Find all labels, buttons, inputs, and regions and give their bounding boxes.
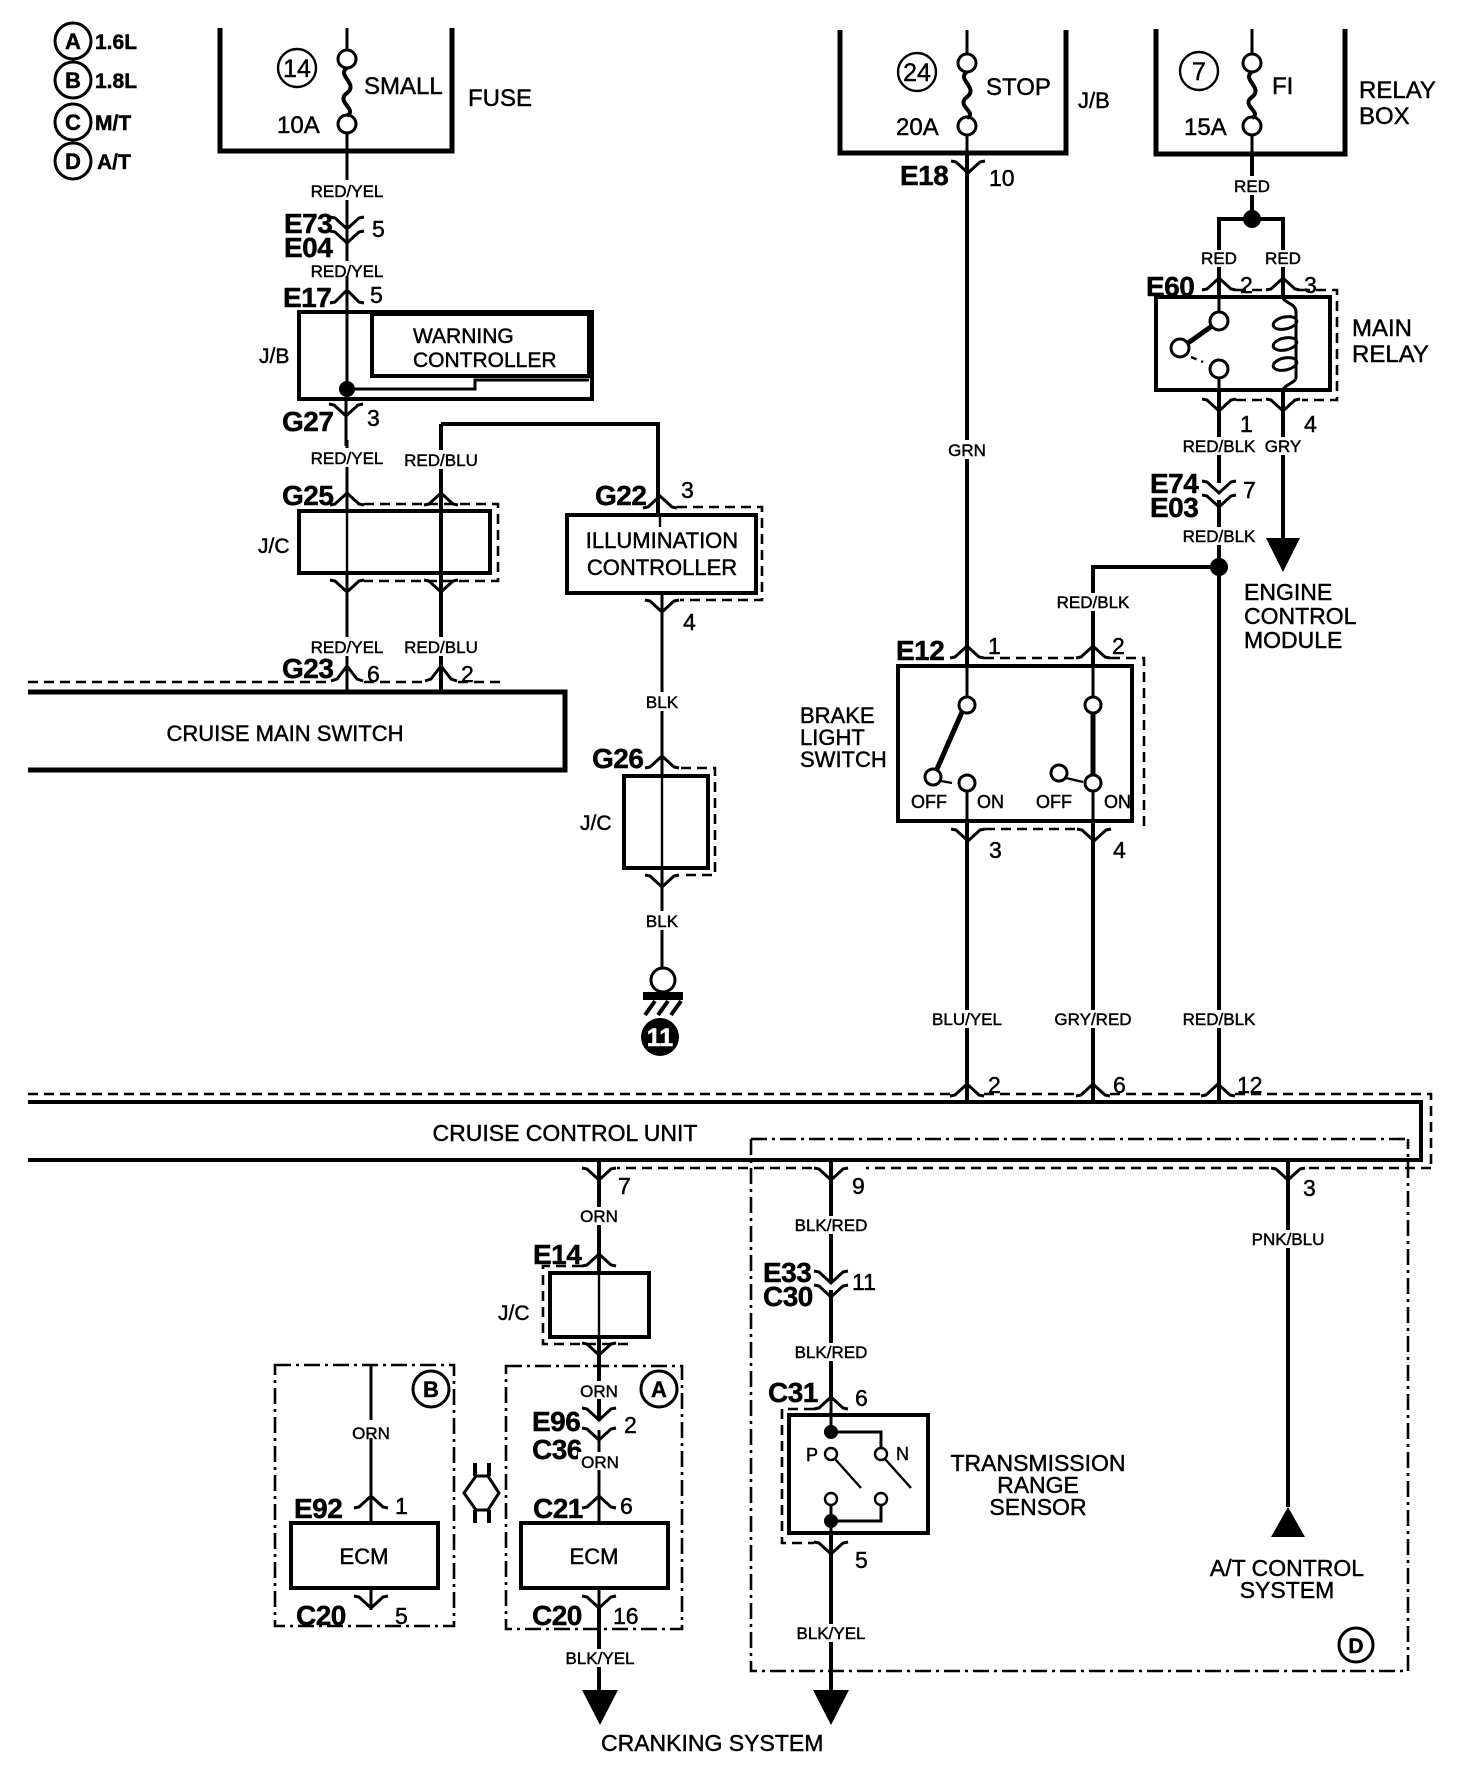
wire fuse14 to E73 (RED/YEL) [308, 151, 386, 251]
svg-text:BLK/YEL: BLK/YEL [797, 1624, 866, 1643]
wire B box (ORN) [348, 1365, 394, 1497]
svg-text:20A: 20A [896, 114, 939, 141]
svg-text:ILLUMINATION: ILLUMINATION [586, 528, 738, 553]
brake switch contact 2 (ON position) [1036, 666, 1131, 821]
G26 J/C lower pin [645, 875, 679, 887]
connector E74/E03 pin 7 [1150, 468, 1256, 523]
svg-text:2: 2 [624, 1412, 637, 1438]
wire J/C to G23 pin2 (RED/BLU) [404, 573, 480, 664]
legend circle A 1.6L [55, 23, 137, 59]
svg-text:3: 3 [989, 837, 1002, 863]
relay box outline for fuse 7 [1156, 29, 1345, 154]
transmission range sensor box [782, 1409, 1126, 1543]
svg-text:GRY/RED: GRY/RED [1054, 1010, 1131, 1029]
legend circle D A/T [55, 143, 131, 179]
svg-text:4: 4 [1113, 837, 1126, 863]
E12 pins 3 and 4 [951, 829, 1126, 863]
junction connector J/C box at G26 [580, 768, 715, 875]
svg-text:1.8L: 1.8L [95, 70, 137, 93]
wire J/C to ground (BLK) [641, 868, 683, 968]
connector G23 pins 6 and 2 [28, 653, 500, 687]
connector E14 [533, 1239, 616, 1270]
svg-text:14: 14 [283, 55, 311, 83]
svg-text:C21: C21 [533, 1493, 583, 1524]
svg-text:ENGINE: ENGINE [1244, 579, 1332, 605]
svg-text:GRY: GRY [1265, 437, 1302, 456]
svg-text:10: 10 [989, 165, 1015, 191]
variant box A dash-dot outline [506, 1366, 682, 1629]
wire C20 to cranking arrow (BLK/YEL) [563, 1608, 638, 1725]
svg-text:J/B: J/B [259, 345, 289, 368]
svg-text:2: 2 [1240, 272, 1253, 298]
svg-text:11: 11 [852, 1269, 876, 1295]
label RELAY BOX [1359, 77, 1436, 130]
cruise control unit dashed connector outline [28, 1094, 1431, 1168]
svg-text:RED/BLK: RED/BLK [1183, 1010, 1256, 1029]
svg-text:OFF: OFF [911, 792, 947, 812]
svg-text:RED/BLK: RED/BLK [1183, 527, 1256, 546]
double arrow between B and A [464, 1476, 499, 1510]
relay coil [1272, 297, 1298, 390]
connector E33/C30 pin 11 [763, 1257, 876, 1312]
wire J/C to G23 pin6 (RED/YEL) [310, 573, 384, 664]
svg-text:5: 5 [372, 216, 385, 242]
svg-text:E18: E18 [900, 160, 948, 191]
connector C31 pin 5 [814, 1542, 868, 1573]
svg-text:N: N [896, 1444, 909, 1464]
svg-text:RELAY: RELAY [1359, 77, 1436, 104]
connector C20 pin 16 (A) [532, 1588, 639, 1631]
svg-text:G25: G25 [282, 480, 333, 511]
svg-text:CRUISE CONTROL UNIT: CRUISE CONTROL UNIT [433, 1120, 698, 1146]
cruise control unit pins 7 9 3 [582, 1168, 1316, 1201]
svg-text:E92: E92 [294, 1493, 342, 1524]
svg-text:BLK/RED: BLK/RED [795, 1343, 868, 1362]
svg-text:9: 9 [852, 1173, 865, 1199]
region D dash-dot top edge [751, 1138, 1408, 1141]
branch wire junction to E12 pin2 (RED/BLK) [1055, 567, 1219, 666]
cruise main switch box [28, 692, 565, 770]
svg-text:7: 7 [1243, 477, 1256, 503]
svg-text:C20: C20 [532, 1600, 582, 1631]
E14 J/C lower pin [582, 1343, 616, 1355]
ECM box (B) [291, 1497, 438, 1588]
svg-text:1.6L: 1.6L [95, 31, 137, 54]
svg-text:C31: C31 [768, 1377, 818, 1408]
connector E17 pin 5 [283, 276, 383, 313]
svg-text:C: C [65, 110, 81, 135]
svg-text:M/T: M/T [95, 112, 131, 135]
svg-text:C20: C20 [296, 1600, 346, 1631]
wire E60 pin4 (GRY) to engine control module arrow [1263, 390, 1304, 572]
wires G23 into cruise main switch [346, 664, 349, 692]
svg-text:15A: 15A [1184, 114, 1227, 141]
svg-text:16: 16 [613, 1603, 639, 1629]
svg-text:SYSTEM: SYSTEM [1240, 1577, 1335, 1603]
svg-text:11: 11 [647, 1024, 674, 1052]
svg-text:1: 1 [1240, 411, 1253, 437]
svg-text:MAIN: MAIN [1352, 315, 1412, 342]
svg-text:MODULE: MODULE [1244, 627, 1342, 653]
connector E18 pin 10 [900, 160, 1015, 191]
ECM box (A) [521, 1497, 668, 1588]
svg-text:ON: ON [977, 792, 1004, 812]
svg-text:BOX: BOX [1359, 103, 1410, 130]
svg-text:G22: G22 [595, 480, 646, 511]
connector G26 [592, 743, 679, 774]
label A/T CONTROL SYSTEM [1210, 1555, 1364, 1603]
svg-text:5: 5 [855, 1547, 868, 1573]
svg-text:BLK/YEL: BLK/YEL [566, 1649, 635, 1668]
svg-text:6: 6 [855, 1385, 868, 1411]
svg-text:E17: E17 [283, 282, 331, 313]
svg-text:P: P [806, 1445, 818, 1465]
arrow from A/T control system [1271, 1507, 1305, 1537]
wire E60 pin1 down (RED/BLK) [1181, 390, 1258, 483]
wire cruise pin3 to A/T control (PNK/BLU) [1247, 1160, 1329, 1507]
G25 J/C lower pins [330, 580, 458, 592]
wire E12 pin4 to cruise pin6 (GRY/RED) [1053, 821, 1133, 1102]
svg-text:ECM: ECM [570, 1544, 619, 1569]
ground G11 [643, 968, 683, 1015]
legend circle C M/T [55, 104, 131, 140]
svg-text:ORN: ORN [580, 1382, 618, 1401]
sensor internal contacts [806, 1398, 911, 1533]
svg-text:E12: E12 [896, 635, 944, 666]
wire through J/B with junction dot [339, 312, 589, 399]
svg-text:ON: ON [1104, 792, 1131, 812]
svg-text:CRUISE MAIN SWITCH: CRUISE MAIN SWITCH [166, 721, 403, 746]
connector C20 pin 5 (B) [296, 1588, 408, 1631]
svg-text:3: 3 [367, 405, 380, 431]
svg-text:6: 6 [620, 1493, 633, 1519]
svg-text:3: 3 [681, 477, 694, 503]
connector G22 pin 4 [645, 600, 696, 635]
cruise control unit box [28, 1102, 1421, 1160]
svg-text:SMALL: SMALL [364, 73, 443, 100]
label ENGINE CONTROL MODULE [1244, 579, 1357, 653]
svg-text:10A: 10A [277, 112, 320, 139]
wire C31 pin5 to cranking arrow (BLK/YEL) [794, 1533, 869, 1725]
svg-text:BLU/YEL: BLU/YEL [932, 1010, 1002, 1029]
svg-text:J/B: J/B [1078, 88, 1110, 113]
junction connector J/C box at G25 [258, 504, 498, 581]
svg-text:RED/YEL: RED/YEL [311, 182, 384, 201]
svg-text:E96: E96 [532, 1406, 580, 1437]
svg-text:OFF: OFF [1036, 792, 1072, 812]
wire cruise pin7 to E14 (ORN) [577, 1160, 622, 1273]
wire label ORN above E96 [576, 1381, 622, 1401]
svg-text:1: 1 [395, 1493, 408, 1519]
svg-text:B: B [65, 68, 81, 93]
svg-text:24: 24 [903, 59, 931, 87]
svg-text:J/C: J/C [580, 812, 612, 835]
illumination controller box [567, 507, 762, 600]
svg-text:ORN: ORN [352, 1424, 390, 1443]
fuse 24 STOP 20A [896, 30, 1051, 153]
connector C21 pin 6 [533, 1493, 633, 1524]
wire fuse7 down (RED) with junction [1230, 154, 1274, 228]
svg-text:ORN: ORN [580, 1207, 618, 1226]
fuse box (J/B) outline for fuse 14 [220, 28, 452, 151]
connector E12 pins 1 and 2 [896, 633, 1144, 829]
svg-text:7: 7 [1192, 58, 1206, 86]
svg-text:SWITCH: SWITCH [800, 747, 887, 772]
svg-text:E03: E03 [1150, 492, 1198, 523]
svg-text:5: 5 [395, 1603, 408, 1629]
relay switch contact [1171, 297, 1228, 390]
variant box B dash-dot outline [275, 1365, 454, 1626]
svg-text:GRN: GRN [948, 441, 986, 460]
svg-text:STOP: STOP [986, 74, 1051, 101]
svg-text:5: 5 [370, 282, 383, 308]
E60 pins 1 and 4 [1202, 399, 1317, 437]
svg-text:WARNING: WARNING [413, 325, 514, 348]
connector G27 pin 3 [282, 399, 380, 446]
svg-text:BLK: BLK [646, 693, 679, 712]
svg-text:RED/BLU: RED/BLU [404, 451, 478, 470]
svg-text:RED/BLK: RED/BLK [1183, 437, 1256, 456]
svg-text:A: A [65, 29, 81, 54]
main relay box [1156, 297, 1429, 390]
ground id 11 [641, 1018, 679, 1056]
svg-text:2: 2 [1112, 633, 1125, 659]
svg-text:RED: RED [1265, 249, 1301, 268]
connector C31 pin 6 [768, 1377, 868, 1411]
wire cruise pin9 to E33 (BLK/RED) [793, 1160, 870, 1281]
wire branch corner to illumination controller [441, 424, 658, 515]
svg-text:BLK: BLK [646, 912, 679, 931]
wire E96 to C21 (ORN) [578, 1430, 622, 1497]
svg-text:3: 3 [1303, 1175, 1316, 1201]
svg-text:A/T: A/T [97, 151, 131, 174]
svg-text:CRANKING SYSTEM: CRANKING SYSTEM [601, 1730, 823, 1756]
svg-text:D: D [1348, 1635, 1363, 1658]
wire E73 to E17 (RED/YEL) [308, 258, 386, 288]
svg-text:CONTROL: CONTROL [1244, 603, 1357, 629]
connector E92 pin 1 [294, 1493, 408, 1524]
wire G22 pin4 to G26 (BLK) [641, 593, 683, 776]
fuse 14 SMALL 10A [277, 28, 443, 151]
svg-text:RED: RED [1201, 249, 1237, 268]
branch wires to E60 pins (RED / RED) [1198, 219, 1305, 297]
svg-text:C36: C36 [532, 1434, 582, 1465]
svg-text:J/C: J/C [258, 535, 290, 558]
junction connector J/C box at E14 [498, 1266, 649, 1344]
connector E96/C36 pin 2 [532, 1406, 637, 1465]
cruise control unit connector pins 2 6 12 [950, 1072, 1263, 1098]
svg-text:RED/YEL: RED/YEL [311, 449, 384, 468]
svg-text:J/C: J/C [498, 1302, 530, 1325]
svg-text:G26: G26 [592, 743, 643, 774]
svg-text:BLK/RED: BLK/RED [795, 1216, 868, 1235]
svg-text:RED: RED [1234, 177, 1270, 196]
connector G22 pin 3 [595, 477, 694, 511]
wire E12 pin3 to cruise pin2 (BLU/YEL) [928, 821, 1006, 1102]
svg-text:A: A [651, 1377, 667, 1402]
svg-text:RED/BLU: RED/BLU [404, 638, 478, 657]
svg-text:PNK/BLU: PNK/BLU [1252, 1230, 1325, 1249]
wire into A box [597, 1337, 601, 1421]
svg-text:4: 4 [1304, 411, 1317, 437]
svg-text:CONTROLLER: CONTROLLER [587, 555, 737, 580]
fuse box (J/B) outline for fuse 24 [840, 30, 1066, 153]
brake switch contact 1 (OFF position) [911, 666, 1004, 821]
brake light switch box [800, 666, 1132, 821]
legend circle B 1.8L [55, 62, 137, 98]
svg-text:RELAY: RELAY [1352, 341, 1429, 368]
svg-text:G23: G23 [282, 653, 333, 684]
svg-text:G27: G27 [282, 406, 333, 437]
svg-text:FUSE: FUSE [468, 85, 532, 112]
wire G27 to G25 (RED/YEL) [310, 440, 384, 511]
fuse 7 FI 15A [1180, 29, 1293, 154]
svg-text:ORN: ORN [581, 1453, 619, 1472]
svg-text:1: 1 [988, 633, 1001, 659]
svg-text:D: D [65, 149, 81, 174]
wire E74 to junction (RED/BLK) [1181, 500, 1258, 1102]
svg-text:CONTROLLER: CONTROLLER [413, 349, 557, 372]
connector G25 [282, 480, 458, 511]
svg-text:3: 3 [1304, 272, 1317, 298]
connector E73/E04 pin 5 [284, 208, 385, 263]
svg-text:ECM: ECM [340, 1544, 389, 1569]
svg-text:SENSOR: SENSOR [989, 1494, 1086, 1520]
svg-text:C30: C30 [763, 1281, 813, 1312]
svg-text:RED/BLK: RED/BLK [1057, 593, 1130, 612]
J/B junction block box [259, 312, 592, 399]
region D dash-dot box [751, 1139, 1408, 1671]
connector E60 pins 2 and 3 [1146, 271, 1337, 400]
svg-text:E04: E04 [284, 232, 333, 263]
svg-text:7: 7 [618, 1173, 631, 1199]
warning controller box [372, 314, 589, 376]
svg-text:FI: FI [1272, 73, 1293, 100]
wire RED/BLU branch to G25 J/C [404, 424, 480, 511]
wire E33 to C31 (BLK/RED) [793, 1290, 870, 1398]
wire E18 to E12 pin1 (GRN) [944, 153, 991, 666]
svg-text:4: 4 [683, 609, 696, 635]
svg-text:B: B [423, 1377, 439, 1402]
